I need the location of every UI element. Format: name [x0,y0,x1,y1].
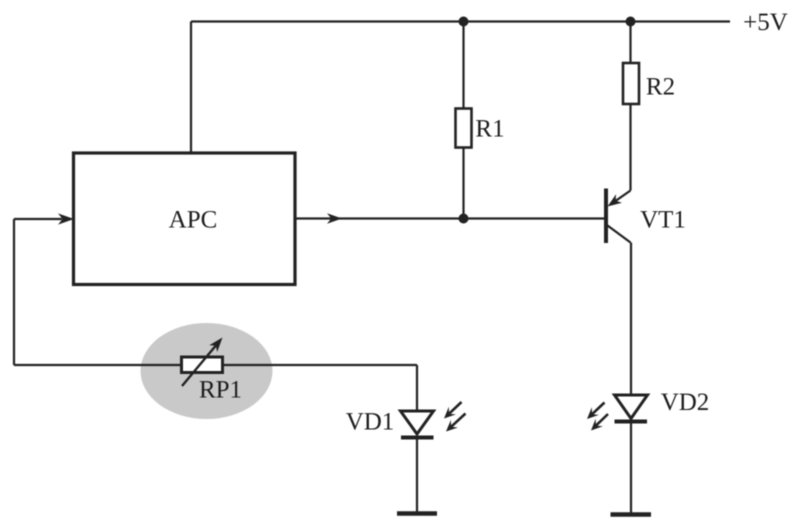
LED VD2 [615,395,648,419]
svg-text:VD2: VD2 [661,389,710,416]
svg-text:VD1: VD1 [346,409,395,436]
wire feedback left vertical [13,219,15,365]
node junction dot rail/R1 [459,17,469,27]
wire VD2 to ground [630,422,632,514]
transistor VT1 [604,189,608,244]
svg-text:R2: R2 [646,74,675,101]
wire +5V power rail [191,20,730,22]
photodiode VD1 [401,411,434,434]
resistor R2 [623,63,639,104]
wire from rail down to APC box top [190,22,192,154]
svg-text:APC: APC [169,207,218,234]
node junction dot base-line/R1 [459,214,469,224]
wire R1 to base line [462,148,464,219]
ground under VD1 [397,511,437,516]
block APC [74,153,296,285]
node junction dot rail/R2 [626,17,636,27]
potentiometer RP1 [182,357,223,373]
highlight ellipse around RP1 [141,323,273,419]
wire rail to R1 [462,22,464,109]
wire R2 to VT1 emitter [629,104,631,191]
svg-text:RP1: RP1 [199,377,242,404]
wire VT1 collector to VD2 [630,243,632,396]
wire APC output to VT1 base with arrow [295,217,604,219]
light arrows into VD1 [449,402,461,414]
svg-text:VT1: VT1 [640,207,686,234]
resistor R1 [456,109,472,148]
wire down to VD1 [416,365,418,412]
wire input arrow into APC [14,218,62,220]
wire VD1 to ground [416,438,418,514]
ground under VD2 [611,512,652,517]
svg-text:+5V: +5V [743,9,788,36]
wire feedback bottom horizontal to VD1 corner [14,364,417,366]
svg-text:R1: R1 [475,116,504,143]
light arrows out of VD2 [592,403,604,415]
wire rail to R2 [629,22,631,64]
